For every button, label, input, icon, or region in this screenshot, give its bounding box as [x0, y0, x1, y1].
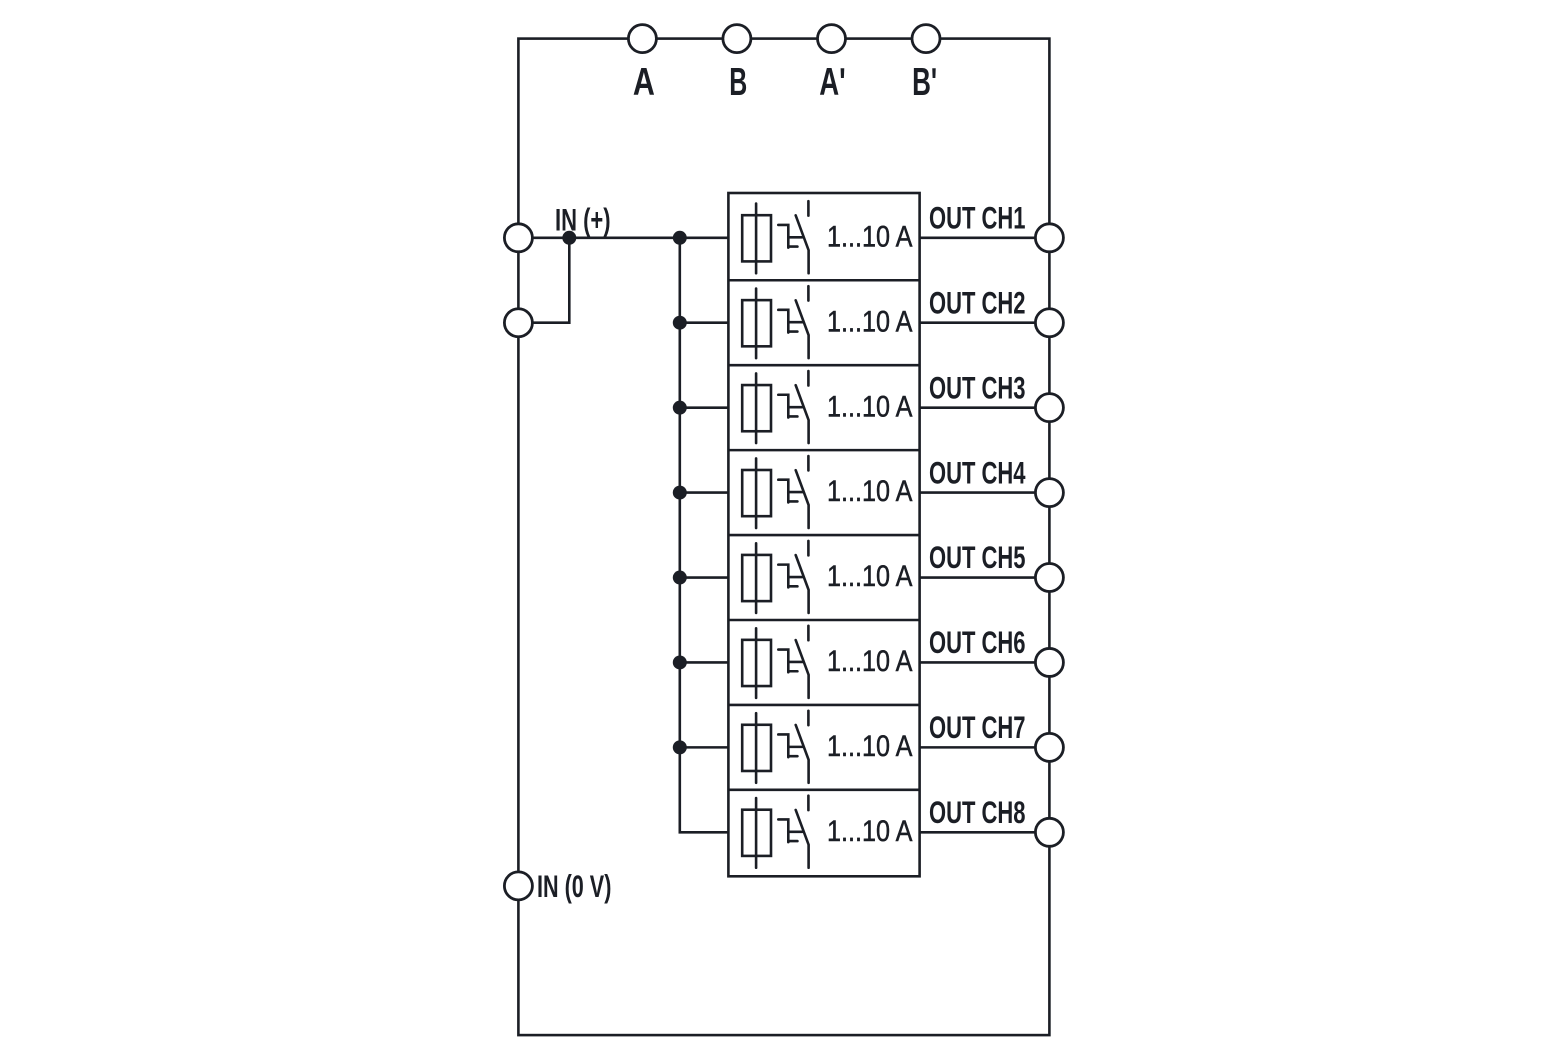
terminal A [628, 25, 656, 53]
svg-text:OUT CH3: OUT CH3 [929, 369, 1026, 405]
channel divider CH7/CH8 [728, 789, 919, 792]
svg-text:OUT CH2: OUT CH2 [929, 284, 1026, 320]
svg-text:1...10 A: 1...10 A [827, 730, 913, 763]
junction bus node CH4 [673, 486, 687, 500]
wire IN(+) feed to bus and CH1 input [518, 237, 728, 240]
junction bus node CH2 [673, 316, 687, 330]
wire OUT CH2 [920, 321, 1036, 324]
breaker switch contact Q1 [796, 201, 809, 273]
breaker switch contact Q7 [796, 711, 809, 783]
junction IN(+) jumper node [562, 231, 576, 245]
trip latch mechanism of Q8 [778, 819, 802, 842]
fuse F6 [742, 628, 771, 698]
svg-text:B: B [729, 61, 747, 104]
breaker switch contact Q2 [796, 286, 809, 358]
terminal OUT CH8 [1035, 818, 1063, 846]
trip latch mechanism of Q5 [778, 565, 802, 588]
wire bus stub to CH2 input [680, 321, 729, 324]
wire OUT CH1 [920, 237, 1036, 240]
wire bus stub to CH6 input [680, 661, 729, 664]
svg-text:1...10 A: 1...10 A [827, 645, 913, 678]
svg-text:IN (0 V): IN (0 V) [537, 868, 611, 904]
junction bus node CH7 [673, 740, 687, 754]
svg-text:OUT CH4: OUT CH4 [929, 454, 1026, 490]
breaker switch contact Q5 [796, 541, 809, 613]
svg-text:B': B' [912, 61, 937, 104]
breaker switch contact Q6 [796, 626, 809, 698]
terminal OUT CH2 [1035, 309, 1063, 337]
wire OUT CH4 [920, 491, 1036, 494]
wire OUT CH5 [920, 576, 1036, 579]
wire OUT CH3 [920, 406, 1036, 409]
fuse F1 [742, 204, 771, 274]
fuse F3 [742, 373, 771, 443]
trip latch mechanism of Q6 [778, 650, 802, 673]
terminal OUT CH5 [1035, 564, 1063, 592]
channel divider CH2/CH3 [728, 364, 919, 367]
channel divider CH3/CH4 [728, 449, 919, 452]
svg-text:OUT CH7: OUT CH7 [929, 709, 1026, 745]
wire bus stub to CH5 input [680, 576, 729, 579]
svg-text:OUT CH8: OUT CH8 [929, 794, 1026, 830]
trip latch mechanism of Q2 [778, 310, 802, 333]
junction bus node CH6 [673, 655, 687, 669]
terminal IN(+) upper [504, 224, 532, 252]
channel divider CH6/CH7 [728, 704, 919, 707]
channel divider CH1/CH2 [728, 279, 919, 282]
terminal B' [912, 25, 940, 53]
breaker switch contact Q3 [796, 371, 809, 443]
svg-text:1...10 A: 1...10 A [827, 560, 913, 593]
terminal IN(0V) [504, 872, 532, 900]
trip latch mechanism of Q7 [778, 734, 802, 757]
terminal IN(+) lower [504, 309, 532, 337]
svg-text:1...10 A: 1...10 A [827, 220, 913, 253]
channel divider CH4/CH5 [728, 534, 919, 537]
svg-text:1...10 A: 1...10 A [827, 815, 913, 848]
trip latch mechanism of Q4 [778, 480, 802, 503]
trip latch mechanism of Q1 [778, 225, 802, 248]
wire bus stub to CH3 input [680, 406, 729, 409]
terminal B [723, 25, 751, 53]
8-channel breaker block outline [728, 193, 919, 876]
fuse F7 [742, 713, 771, 783]
breaker switch contact Q4 [796, 456, 809, 528]
wire jumper between IN(+) terminals [518, 238, 569, 323]
breaker switch contact Q8 [796, 796, 809, 868]
wire OUT CH6 [920, 661, 1036, 664]
trip latch mechanism of Q3 [778, 395, 802, 418]
terminal OUT CH1 [1035, 224, 1063, 252]
svg-text:1...10 A: 1...10 A [827, 390, 913, 423]
terminal A' [818, 25, 846, 53]
module enclosure border [518, 39, 1049, 1036]
wire OUT CH7 [920, 746, 1036, 749]
fuse F2 [742, 289, 771, 359]
junction bus node CH5 [673, 571, 687, 585]
fuse F8 [742, 798, 771, 868]
terminal OUT CH3 [1035, 394, 1063, 422]
junction bus node CH1 [673, 231, 687, 245]
svg-text:A': A' [819, 61, 846, 104]
svg-text:OUT CH1: OUT CH1 [929, 200, 1026, 236]
channel divider CH5/CH6 [728, 619, 919, 622]
svg-text:A: A [633, 61, 655, 104]
wire +24V distribution bus [680, 238, 729, 833]
terminal OUT CH7 [1035, 733, 1063, 761]
svg-text:OUT CH6: OUT CH6 [929, 624, 1026, 660]
wire OUT CH8 [920, 831, 1036, 834]
svg-text:OUT CH5: OUT CH5 [929, 539, 1026, 575]
junction bus node CH3 [673, 401, 687, 415]
svg-text:IN (+): IN (+) [555, 202, 611, 238]
terminal OUT CH6 [1035, 648, 1063, 676]
wire bus stub to CH7 input [680, 746, 729, 749]
fuse F5 [742, 543, 771, 613]
svg-text:1...10 A: 1...10 A [827, 475, 913, 508]
wire bus stub to CH4 input [680, 491, 729, 494]
fuse F4 [742, 458, 771, 528]
terminal OUT CH4 [1035, 479, 1063, 507]
svg-text:1...10 A: 1...10 A [827, 305, 913, 338]
